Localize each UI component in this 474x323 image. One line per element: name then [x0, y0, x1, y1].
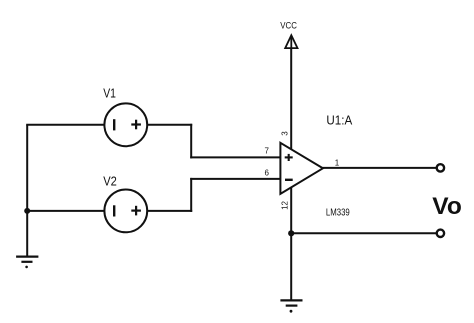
svg-text:12: 12 — [281, 200, 290, 209]
svg-text:VCC: VCC — [280, 20, 297, 30]
terminal output top — [437, 164, 444, 171]
svg-text:7: 7 — [265, 146, 270, 155]
svg-text:6: 6 — [265, 169, 270, 178]
svg-text:V2: V2 — [103, 173, 117, 188]
ground bottom — [280, 300, 302, 312]
node junction V2/rail — [24, 208, 30, 214]
voltage source V2 — [104, 190, 147, 233]
wire pin6 — [190, 178, 280, 180]
node junction pin12/bottom wire — [288, 230, 294, 236]
svg-text:1: 1 — [335, 159, 340, 168]
svg-text:U1:A: U1:A — [326, 114, 352, 128]
voltage source V1 — [104, 103, 147, 146]
terminal output bottom — [437, 230, 444, 237]
wire pin7 — [190, 156, 280, 158]
wire pin12 to ground — [290, 187, 292, 301]
svg-text:Vo: Vo — [432, 193, 462, 220]
wire V1 right — [147, 124, 192, 126]
wire corner up to pin6 — [190, 178, 192, 212]
power VCC arrow — [285, 35, 297, 48]
wire V2 right — [147, 210, 192, 212]
svg-text:V1: V1 — [103, 86, 116, 101]
wire left rail — [26, 125, 28, 257]
wire bottom to terminal — [291, 232, 436, 234]
wire output pin1 — [323, 167, 437, 169]
op-amp U1:A comparator triangle — [280, 143, 323, 194]
wire corner down to pin7 — [190, 124, 192, 159]
wire VCC to pin3 — [290, 37, 292, 151]
ground left — [16, 257, 38, 269]
wire V2 left — [26, 210, 105, 212]
svg-text:LM339: LM339 — [326, 207, 350, 218]
wire V1 left — [26, 124, 105, 126]
svg-text:3: 3 — [281, 131, 290, 136]
